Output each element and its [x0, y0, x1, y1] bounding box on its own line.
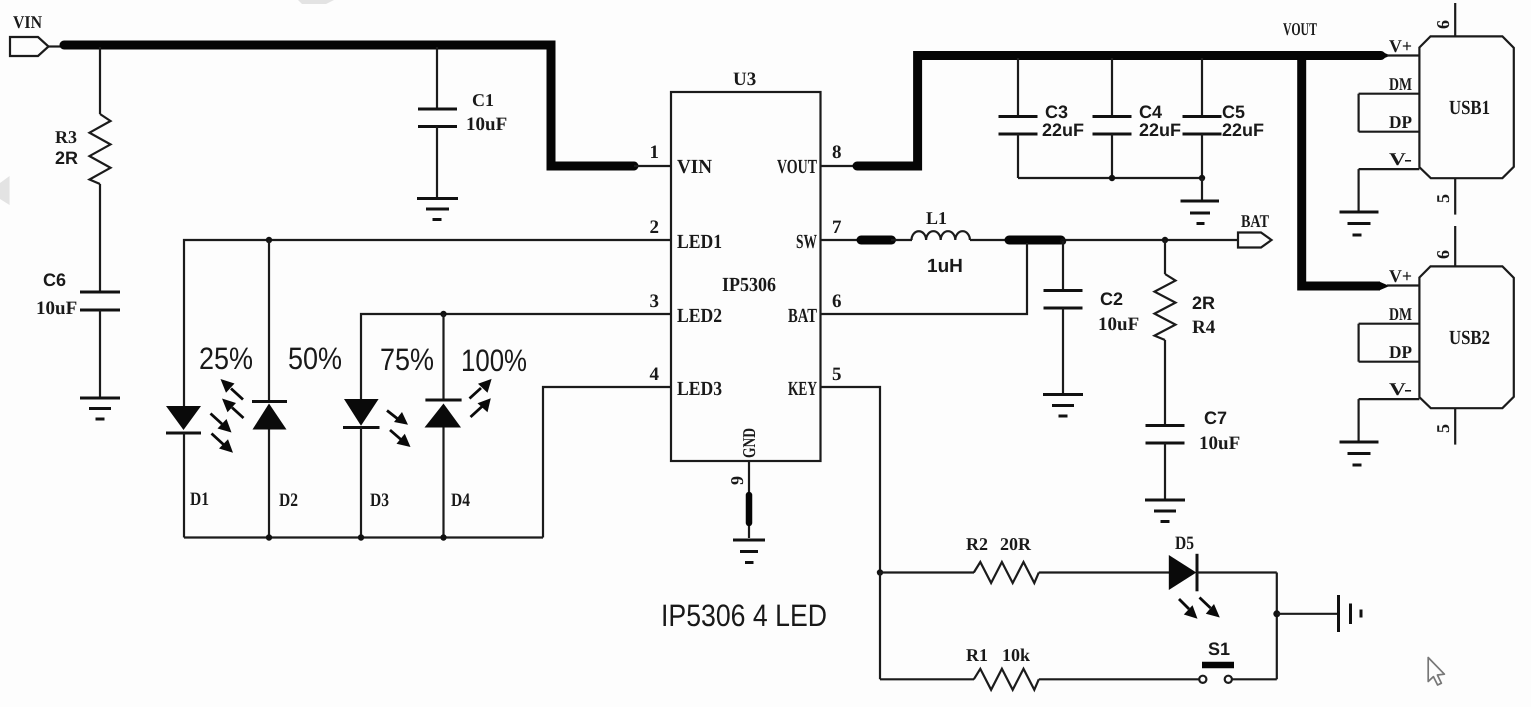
resistor R3 — [55, 114, 111, 184]
wire VIN bus to R3 — [99, 47, 101, 114]
wire U3 pin3 LED2 to D3 — [361, 314, 671, 399]
svg-text:6: 6 — [1433, 20, 1453, 29]
svg-text:R3: R3 — [55, 127, 77, 147]
svg-text:4: 4 — [650, 364, 660, 385]
mouse cursor — [1428, 658, 1444, 686]
wire V- USB2 to ground — [1357, 399, 1359, 441]
svg-text:U3: U3 — [733, 69, 756, 90]
svg-text:VIN: VIN — [677, 156, 713, 178]
junction node C2 — [1060, 238, 1066, 244]
pin DM USB1 — [1359, 74, 1420, 94]
ground USB2 — [1340, 442, 1379, 465]
wire U3 pin7 SW — [820, 239, 862, 241]
svg-text:1uH: 1uH — [927, 256, 963, 277]
wire L1 to BAT node — [970, 239, 1010, 241]
svg-text:L1: L1 — [926, 208, 947, 228]
pin 5 USB2 — [1433, 408, 1455, 444]
wire C5 to cap bus — [1201, 134, 1203, 178]
pin 8 VOUT — [777, 142, 842, 178]
svg-text:IP5306: IP5306 — [722, 274, 776, 296]
pin DP USB2 — [1359, 342, 1420, 362]
wire KEY to R1 — [880, 678, 974, 680]
ground below C5 — [1181, 201, 1220, 224]
svg-text:75%: 75% — [380, 342, 434, 377]
pin 1 VIN — [650, 142, 713, 178]
svg-text:9: 9 — [727, 476, 747, 485]
svg-text:USB1: USB1 — [1449, 97, 1490, 119]
pin 7 SW — [796, 217, 842, 253]
LED arrows D4 — [470, 379, 492, 417]
wire bus to C5 — [1201, 58, 1203, 116]
capacitor C5 — [1183, 102, 1265, 140]
svg-text:8: 8 — [832, 142, 842, 163]
svg-text:LED2: LED2 — [677, 305, 722, 327]
wire R3 to C6 — [99, 184, 101, 291]
resistor R4 — [1155, 274, 1216, 340]
junction nodes LED bus — [266, 534, 447, 540]
wire C1 to ground — [436, 127, 438, 198]
capacitor C7 — [1146, 408, 1241, 454]
capacitor C3 — [999, 102, 1085, 140]
wire to right ground — [1277, 613, 1338, 615]
svg-text:22uF: 22uF — [1042, 120, 1084, 140]
capacitor C6 — [36, 270, 120, 319]
pin 6 USB1 — [1433, 3, 1455, 36]
wire DM DP bracket USB2 — [1357, 324, 1359, 362]
ground right rotated — [1339, 595, 1362, 632]
svg-text:DM: DM — [1389, 304, 1412, 324]
svg-text:C1: C1 — [472, 90, 494, 110]
svg-text:C6: C6 — [43, 270, 66, 290]
capacitor C4 — [1093, 102, 1182, 140]
LED D5 — [1169, 533, 1197, 591]
svg-text:2R: 2R — [1192, 293, 1215, 313]
svg-text:6: 6 — [1433, 250, 1453, 259]
wire SW thick stub — [861, 236, 892, 245]
svg-text:10k: 10k — [1002, 645, 1030, 665]
wire C7 to ground — [1164, 443, 1166, 499]
wire D5 to right vertical — [1197, 571, 1277, 573]
pin V+ USB2 — [1387, 266, 1419, 286]
LED D3 — [343, 399, 389, 511]
svg-text:V-: V- — [1389, 379, 1412, 399]
wire D2 branch — [268, 240, 270, 402]
junction node LED2 / D4 — [440, 311, 446, 317]
pin V- USB2 — [1359, 379, 1420, 399]
wire D4 branch — [442, 314, 444, 400]
ground below C6 — [80, 398, 120, 419]
switch S1 — [1199, 639, 1234, 683]
capacitor C2 — [1044, 289, 1140, 335]
wire SW output thick stub — [1009, 236, 1061, 245]
wire BAT node to BAT port — [1061, 239, 1238, 241]
wire VOUT to USB2 thick — [1302, 56, 1380, 287]
svg-text:GND: GND — [739, 428, 759, 458]
svg-text:C5: C5 — [1222, 102, 1245, 122]
svg-text:1: 1 — [650, 142, 660, 163]
svg-text:3: 3 — [650, 291, 660, 312]
svg-text:5: 5 — [1433, 194, 1453, 203]
wire S1 to right vertical — [1232, 678, 1277, 680]
svg-text:VOUT: VOUT — [1283, 19, 1317, 39]
junction node LED1 / D2 — [266, 237, 272, 243]
svg-text:VOUT: VOUT — [777, 156, 817, 178]
pin V- USB1 — [1359, 149, 1420, 169]
ground below U3 pin 9 — [733, 540, 765, 563]
junction node ground branch — [1273, 610, 1280, 617]
wire U3 pin5 KEY — [820, 387, 880, 573]
wire U3 pin2 LED1 to D1 — [184, 240, 671, 406]
ground below C1 — [417, 199, 458, 220]
wire bus to C3 — [1017, 58, 1019, 116]
svg-text:C3: C3 — [1045, 102, 1068, 122]
svg-text:2R: 2R — [55, 148, 78, 168]
svg-text:KEY: KEY — [788, 378, 817, 400]
wire LED bottom bus — [184, 428, 543, 538]
capacitor C1 — [418, 90, 507, 135]
wire R2 to D5 — [1039, 571, 1169, 573]
svg-text:50%: 50% — [288, 341, 342, 376]
pin 6 BAT — [788, 291, 842, 327]
svg-text:100%: 100% — [461, 343, 527, 378]
pin DP USB1 — [1359, 112, 1420, 132]
pin 5 KEY — [788, 364, 842, 400]
LED arrows D3 — [387, 411, 411, 448]
wire right vertical — [1276, 573, 1278, 680]
svg-text:C4: C4 — [1139, 102, 1162, 122]
svg-text:SW: SW — [796, 231, 817, 253]
wire cap bus to ground — [1201, 178, 1203, 200]
svg-text:USB2: USB2 — [1449, 327, 1490, 349]
wire V- USB1 to ground — [1357, 169, 1359, 211]
ground below C7 — [1145, 500, 1185, 522]
resistor R1 — [966, 645, 1039, 690]
svg-text:R4: R4 — [1192, 317, 1216, 338]
svg-text:DP: DP — [1389, 342, 1412, 362]
pin 6 USB2 — [1433, 226, 1455, 266]
svg-text:D1: D1 — [190, 489, 209, 510]
resistor R2 — [966, 534, 1039, 583]
svg-text:10uF: 10uF — [1098, 314, 1139, 335]
svg-text:S1: S1 — [1208, 639, 1230, 659]
junction nodes cap bus — [1109, 175, 1205, 181]
wire U3 pin6 BAT — [820, 243, 1027, 314]
pin 5 USB1 — [1433, 178, 1455, 214]
wire bus to U3 pin 1 — [634, 165, 671, 167]
svg-text:5: 5 — [832, 364, 842, 385]
wire C6 to ground — [99, 310, 101, 397]
svg-text:6: 6 — [832, 291, 842, 312]
LED D2 — [252, 402, 298, 512]
svg-text:10uF: 10uF — [466, 114, 507, 135]
svg-text:2: 2 — [650, 217, 660, 238]
pin DM USB2 — [1359, 304, 1420, 324]
svg-text:10uF: 10uF — [36, 298, 77, 319]
port BAT — [1238, 211, 1272, 248]
wire R4 to C7 — [1164, 340, 1166, 425]
svg-text:LED1: LED1 — [677, 231, 722, 253]
USB connector USB2 — [1419, 266, 1513, 408]
LED arrows D5 — [1179, 598, 1220, 619]
wire VOUT taper tip USB1 — [1380, 51, 1391, 60]
ground below C2 — [1043, 395, 1083, 417]
wire KEY down to R1 row — [879, 573, 881, 680]
wire capacitor ground bus — [1018, 177, 1202, 179]
LED D1 — [166, 406, 209, 510]
IC U3 IP5306 — [671, 92, 821, 461]
svg-text:BAT: BAT — [1241, 211, 1269, 231]
pin 9 GND — [727, 428, 759, 538]
wire U3 pin4 LED3 — [543, 387, 671, 538]
svg-text:D3: D3 — [370, 490, 389, 511]
wire DM DP bracket USB1 — [1357, 94, 1359, 132]
wire C4 to cap bus — [1111, 134, 1113, 178]
svg-text:D2: D2 — [279, 490, 298, 511]
svg-text:VIN: VIN — [13, 12, 42, 32]
svg-text:D5: D5 — [1175, 533, 1194, 554]
LED arrows D1 D2 — [211, 379, 244, 453]
wire VIN bus to C1 — [436, 47, 438, 109]
wire VOUT taper tip USB2 — [1379, 282, 1390, 291]
svg-text:BAT: BAT — [788, 305, 817, 327]
svg-text:R1: R1 — [966, 645, 988, 665]
wire VIN bus thick — [64, 45, 634, 166]
pin 4 LED3 — [650, 364, 723, 400]
svg-text:22uF: 22uF — [1139, 120, 1181, 140]
svg-text:7: 7 — [832, 217, 842, 238]
svg-text:LED3: LED3 — [677, 378, 722, 400]
pin 2 LED1 — [650, 217, 723, 253]
svg-text:V+: V+ — [1389, 36, 1412, 56]
svg-text:22uF: 22uF — [1222, 120, 1264, 140]
LED D4 — [425, 400, 471, 511]
svg-text:R2: R2 — [966, 534, 988, 554]
svg-text:C2: C2 — [1100, 289, 1123, 309]
svg-text:IP5306 4 LED: IP5306 4 LED — [661, 598, 827, 633]
svg-text:V-: V- — [1389, 149, 1412, 169]
svg-text:10uF: 10uF — [1199, 433, 1240, 454]
svg-text:V+: V+ — [1389, 266, 1412, 286]
svg-text:D4: D4 — [451, 490, 470, 511]
svg-text:5: 5 — [1433, 424, 1453, 433]
wire node to R4 — [1164, 240, 1166, 274]
svg-text:C7: C7 — [1204, 408, 1227, 428]
svg-text:DM: DM — [1389, 74, 1412, 94]
USB connector USB1 — [1419, 36, 1513, 178]
wire VOUT bus thick — [857, 56, 1381, 167]
junction node KEY R2 — [877, 569, 883, 575]
svg-text:20R: 20R — [1000, 534, 1032, 554]
wire U3 pin8 VOUT thin — [820, 165, 858, 167]
wire R1 to S1 — [1039, 678, 1199, 680]
wire node to C2 — [1062, 241, 1064, 290]
pin V+ USB1 — [1387, 36, 1419, 56]
svg-text:DP: DP — [1389, 112, 1412, 132]
junction node R4 — [1162, 237, 1168, 243]
wire KEY to R2 — [880, 571, 974, 573]
wire C3 to cap bus — [1017, 134, 1019, 178]
wire C2 to ground — [1062, 308, 1064, 393]
svg-text:25%: 25% — [199, 341, 253, 376]
ground USB1 — [1340, 212, 1379, 235]
port VIN — [10, 12, 64, 56]
wire bus to C4 — [1111, 58, 1113, 116]
wire SW to L1 — [891, 239, 912, 241]
pin 3 LED2 — [650, 291, 723, 327]
inductor L1 — [912, 208, 970, 277]
